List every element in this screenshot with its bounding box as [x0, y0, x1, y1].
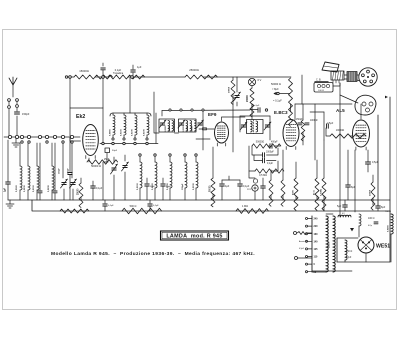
svg-text:LAMDA mod. R 945: LAMDA mod. R 945 — [166, 234, 222, 240]
svg-text:50pF: 50pF — [150, 186, 156, 188]
svg-text:POT: POT — [247, 189, 252, 191]
svg-text:50μF: 50μF — [112, 150, 118, 152]
svg-text:0,0100: 0,0100 — [143, 129, 145, 136]
svg-text:0,0150: 0,0150 — [137, 183, 139, 190]
svg-text:100 Ω: 100 Ω — [368, 217, 375, 220]
svg-text:4μF: 4μF — [225, 185, 230, 188]
svg-text:0,0150: 0,0150 — [120, 129, 122, 136]
svg-text:0,5μF: 0,5μF — [372, 161, 379, 164]
svg-text:12μF: 12μF — [346, 257, 352, 259]
svg-text:≈ 0,1μF: ≈ 0,1μF — [273, 99, 282, 103]
svg-text:2x500V: 2x500V — [329, 241, 331, 248]
svg-text:Modello Lamda R 945. – Produ: Modello Lamda R 945. – Produzione 1936-3… — [51, 251, 255, 257]
svg-text:240: 240 — [314, 218, 319, 221]
svg-text:150pF: 150pF — [68, 167, 70, 174]
svg-text:0,0100: 0,0100 — [169, 126, 171, 132]
svg-text:1μF: 1μF — [5, 187, 7, 192]
svg-text:220: 220 — [314, 225, 319, 228]
svg-text:0,0360: 0,0360 — [388, 225, 390, 232]
svg-text:Ek2: Ek2 — [76, 114, 85, 120]
svg-text:0,0100: 0,0100 — [193, 183, 195, 190]
svg-text:160: 160 — [314, 233, 319, 236]
svg-text:1000pF: 1000pF — [266, 152, 274, 154]
svg-text:140: 140 — [314, 240, 319, 243]
svg-text:700 Ω: 700 Ω — [385, 211, 391, 213]
svg-text:150pF: 150pF — [296, 119, 303, 121]
svg-text:E.BC3: E.BC3 — [274, 110, 288, 115]
svg-text:125: 125 — [314, 248, 319, 251]
svg-text:0,5 MΩ: 0,5 MΩ — [259, 174, 267, 177]
svg-text:6 V: 6 V — [258, 79, 262, 82]
svg-text:150pF: 150pF — [59, 167, 61, 174]
svg-text:35000: 35000 — [370, 189, 372, 196]
svg-text:AL5: AL5 — [336, 108, 345, 113]
svg-text:45 Ω: 45 Ω — [313, 190, 316, 195]
svg-text:25000: 25000 — [78, 188, 80, 195]
svg-text:0,0160: 0,0160 — [16, 185, 18, 192]
svg-text:500 Ω: 500 Ω — [130, 205, 137, 208]
svg-text:Tropadina: Tropadina — [113, 72, 124, 75]
svg-text:1μF: 1μF — [137, 66, 142, 69]
svg-text:0,1μF: 0,1μF — [267, 163, 274, 165]
svg-text:Americ.μF: Americ.μF — [299, 240, 308, 243]
svg-text:0,1μF: 0,1μF — [108, 205, 114, 207]
svg-text:20000: 20000 — [246, 95, 249, 102]
svg-text:150 Ω: 150 Ω — [346, 251, 352, 253]
svg-text:110: 110 — [314, 256, 319, 259]
svg-text:0,1μF: 0,1μF — [115, 69, 122, 72]
svg-text:5μF: 5μF — [337, 205, 342, 208]
svg-text:0,0100: 0,0100 — [131, 129, 133, 136]
svg-text:0,0150: 0,0150 — [33, 185, 35, 192]
svg-text:WE51: WE51 — [376, 244, 390, 250]
svg-text:0,0300: 0,0300 — [24, 185, 26, 192]
svg-text:0,0500: 0,0500 — [48, 185, 50, 192]
svg-text:4500: 4500 — [292, 189, 295, 195]
svg-text:0,1μF: 0,1μF — [96, 187, 103, 190]
svg-text:400pF: 400pF — [271, 142, 278, 144]
svg-text:15000Ω: 15000Ω — [79, 69, 88, 73]
svg-text:0,0100: 0,0100 — [165, 126, 167, 132]
svg-text:50000: 50000 — [210, 185, 212, 192]
svg-text:EF9: EF9 — [208, 112, 217, 117]
svg-text:0,1μF: 0,1μF — [153, 205, 159, 207]
svg-text:1000pF: 1000pF — [310, 120, 318, 122]
svg-text:8μF: 8μF — [381, 206, 386, 209]
svg-text:0,25MΩ: 0,25MΩ — [321, 188, 323, 196]
svg-text:50000 Ω: 50000 Ω — [271, 82, 281, 86]
svg-text:150pF: 150pF — [22, 112, 30, 116]
svg-text:100 Ω: 100 Ω — [318, 90, 324, 92]
svg-text:0,0100: 0,0100 — [191, 126, 193, 132]
svg-text:0,0100: 0,0100 — [187, 126, 189, 132]
svg-text:50000 Ω: 50000 Ω — [91, 164, 101, 168]
svg-text:50000Ω: 50000Ω — [256, 141, 265, 144]
svg-text:0,0060: 0,0060 — [109, 129, 111, 136]
svg-text:25000Ω: 25000Ω — [189, 68, 198, 72]
svg-text:0,0100: 0,0100 — [183, 126, 185, 132]
svg-text:0,1μF: 0,1μF — [243, 185, 250, 188]
svg-text:≈ 8μF: ≈ 8μF — [272, 87, 279, 91]
svg-text:2×1μF: 2×1μF — [253, 104, 260, 107]
svg-text:150pF: 150pF — [182, 183, 184, 190]
svg-text:0,5μF: 0,5μF — [299, 248, 305, 250]
svg-text:50pF: 50pF — [166, 186, 172, 188]
svg-text:1 MΩ: 1 MΩ — [242, 205, 248, 208]
svg-text:50000: 50000 — [229, 86, 231, 93]
svg-text:C. B.: C. B. — [316, 79, 322, 82]
